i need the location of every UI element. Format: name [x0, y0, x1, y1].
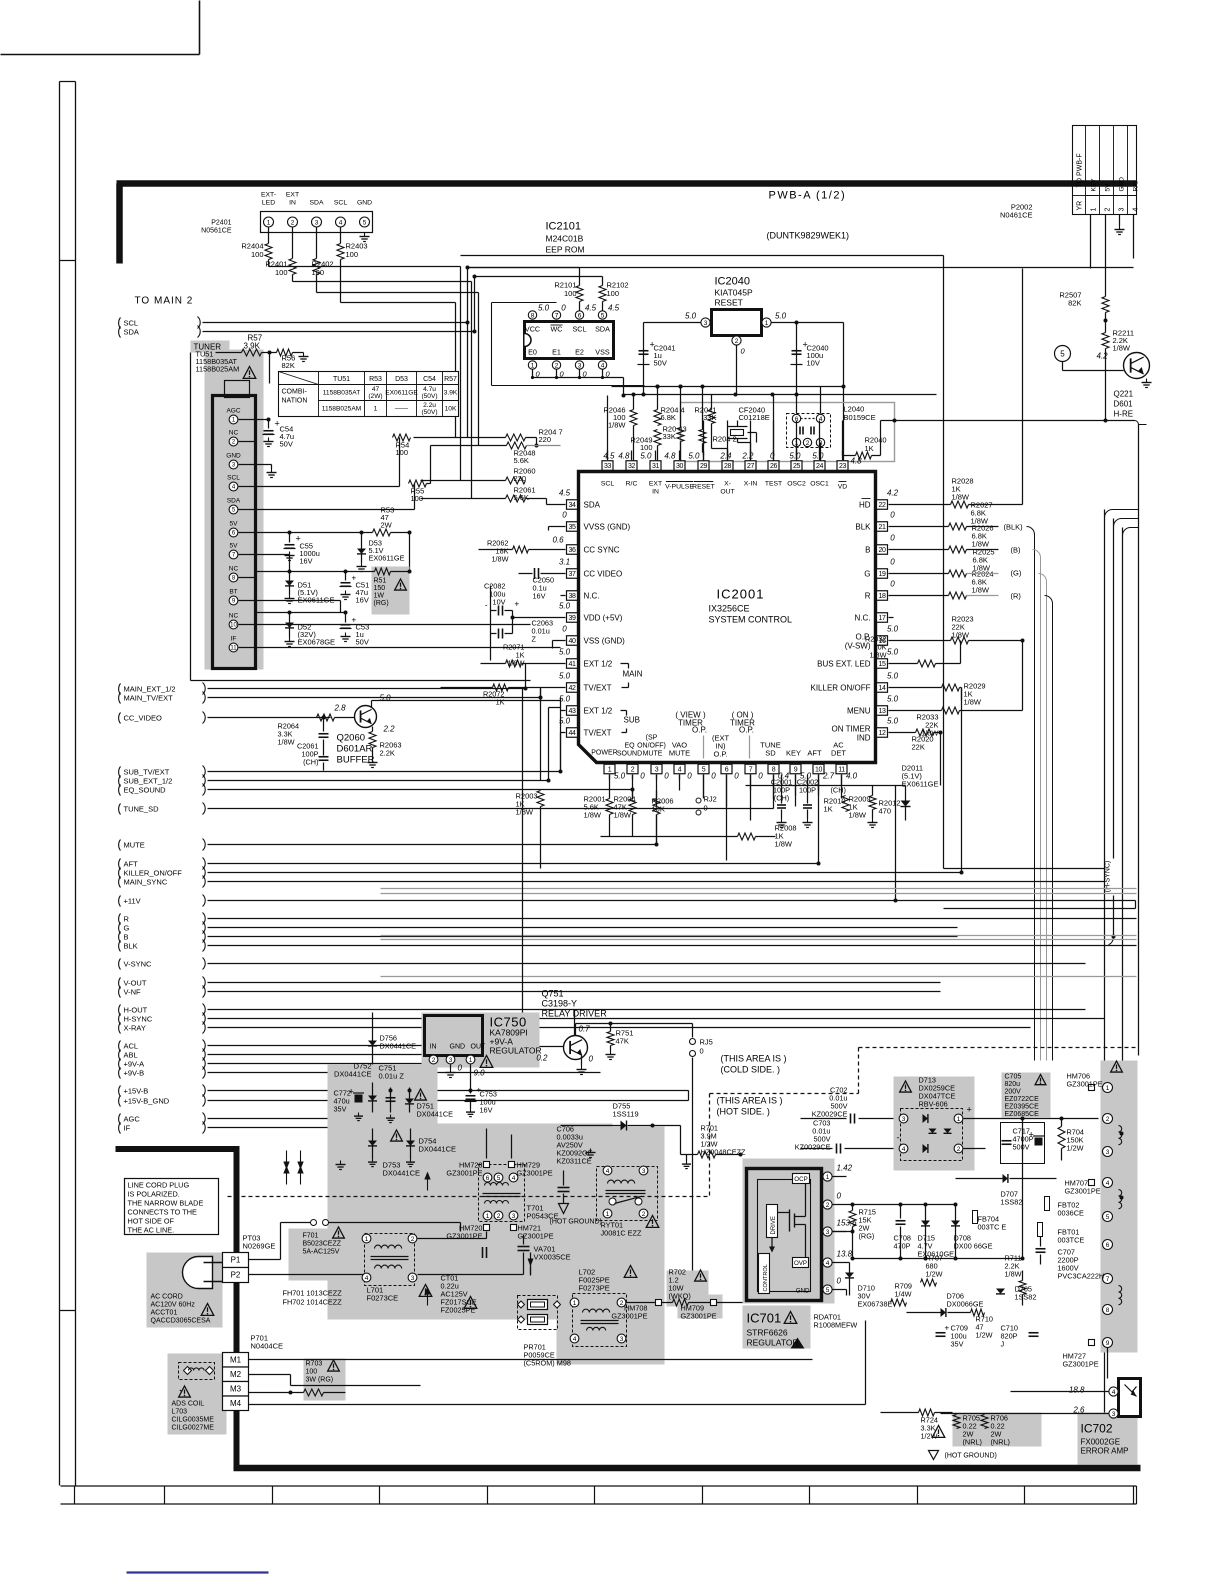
svg-text:1/8W: 1/8W: [608, 421, 626, 430]
svg-text:SUB_EXT_1/2: SUB_EXT_1/2: [124, 777, 173, 786]
svg-text:L703: L703: [172, 1409, 188, 1416]
svg-text:EQ: EQ: [624, 743, 635, 750]
svg-text:0: 0: [770, 452, 775, 461]
svg-text:OSC2: OSC2: [787, 481, 806, 488]
svg-text:22: 22: [879, 502, 886, 509]
svg-text:EEP ROM: EEP ROM: [546, 245, 585, 255]
svg-text:47: 47: [372, 386, 380, 393]
svg-text:IC2101: IC2101: [546, 221, 581, 233]
svg-text:N0269GE: N0269GE: [243, 1242, 276, 1251]
svg-text:17: 17: [879, 615, 886, 622]
svg-text:E1: E1: [552, 348, 561, 357]
svg-text:1/8W: 1/8W: [775, 840, 793, 849]
svg-text:MAIN_TV/EXT: MAIN_TV/EXT: [124, 694, 174, 703]
svg-text:MAIN_EXT_1/2: MAIN_EXT_1/2: [124, 685, 176, 694]
svg-text:AGC: AGC: [124, 1115, 141, 1124]
svg-text:100: 100: [275, 268, 288, 277]
svg-text:0: 0: [890, 580, 895, 589]
svg-text:R703: R703: [306, 1361, 323, 1368]
svg-text:7: 7: [749, 766, 753, 773]
svg-text:GZ3001PE: GZ3001PE: [1065, 1187, 1101, 1196]
svg-text:3: 3: [902, 1116, 906, 1123]
svg-text:R/C: R/C: [626, 481, 638, 488]
svg-text:THE AC LINE.: THE AC LINE.: [128, 1226, 175, 1235]
svg-text:2: 2: [1105, 208, 1112, 212]
svg-text:(B): (B): [1011, 546, 1022, 555]
svg-text:27: 27: [747, 463, 754, 470]
svg-text:X-IN: X-IN: [744, 481, 758, 488]
svg-text:100: 100: [396, 448, 409, 457]
svg-text:KILLER ON/OFF: KILLER ON/OFF: [810, 684, 870, 693]
svg-text:(G): (G): [1011, 569, 1022, 578]
svg-text:C54: C54: [423, 376, 436, 383]
svg-text:1SS119: 1SS119: [613, 1110, 639, 1119]
svg-text:RJ5: RJ5: [700, 1038, 713, 1047]
svg-text:REGULATOR: REGULATOR: [747, 1338, 799, 1348]
svg-text:ACL: ACL: [124, 1042, 139, 1051]
svg-text:1: 1: [573, 1300, 577, 1307]
svg-text:1SS82: 1SS82: [1015, 1293, 1037, 1302]
svg-text:V-OUT: V-OUT: [124, 979, 147, 988]
svg-text:0: 0: [758, 772, 763, 781]
svg-text:+: +: [967, 1105, 972, 1115]
svg-text:B: B: [124, 933, 129, 942]
svg-text:D601: D601: [1114, 400, 1134, 409]
svg-text:CONTROL: CONTROL: [763, 1264, 769, 1291]
svg-text:3: 3: [578, 362, 582, 369]
svg-text:R1008MEFW: R1008MEFW: [814, 1321, 858, 1330]
svg-text:1SS82: 1SS82: [1001, 1198, 1023, 1207]
svg-text:1: 1: [765, 320, 769, 327]
svg-text:NATION: NATION: [282, 398, 308, 405]
svg-text:M2: M2: [230, 1370, 242, 1379]
svg-text:SYSTEM CONTROL: SYSTEM CONTROL: [709, 615, 793, 625]
svg-text:O.P.: O.P.: [713, 750, 727, 759]
svg-text:0.2: 0.2: [536, 1054, 548, 1063]
svg-text:OUT: OUT: [471, 1044, 487, 1051]
svg-text:8: 8: [772, 766, 776, 773]
svg-text:38: 38: [569, 593, 576, 600]
svg-text:0: 0: [687, 772, 692, 781]
svg-text:1: 1: [374, 406, 378, 413]
svg-text:3.1: 3.1: [559, 558, 570, 567]
svg-text:2: 2: [1106, 1116, 1110, 1123]
svg-text:82K: 82K: [282, 361, 295, 370]
svg-text:15: 15: [879, 661, 886, 668]
svg-text:1/2W: 1/2W: [976, 1331, 993, 1340]
svg-text:0: 0: [562, 625, 567, 634]
svg-text:ABL: ABL: [124, 1051, 138, 1060]
svg-text:2.2u: 2.2u: [423, 402, 436, 409]
svg-text:SCL: SCL: [124, 319, 139, 328]
svg-text:SCL: SCL: [573, 325, 587, 334]
svg-text:EZ0395CE: EZ0395CE: [1005, 1104, 1040, 1111]
svg-text:3: 3: [449, 1057, 453, 1064]
svg-text:DRIVE: DRIVE: [771, 1216, 777, 1234]
svg-text:OVP: OVP: [794, 1260, 807, 1267]
svg-text:V-PULSE: V-PULSE: [665, 484, 694, 491]
svg-text:——: ——: [395, 406, 409, 413]
svg-text:AC120V 60Hz: AC120V 60Hz: [151, 1302, 196, 1309]
svg-text:150: 150: [374, 585, 386, 592]
svg-text:F0273PE: F0273PE: [579, 1284, 610, 1293]
svg-text:REGULATOR: REGULATOR: [490, 1046, 542, 1056]
svg-text:KILLER_ON/OFF: KILLER_ON/OFF: [124, 869, 183, 878]
svg-text:4.0: 4.0: [846, 772, 858, 781]
svg-text:N0404CE: N0404CE: [251, 1342, 284, 1351]
svg-text:2.7: 2.7: [822, 772, 835, 781]
svg-text:R51: R51: [374, 578, 387, 585]
svg-text:5.0: 5.0: [538, 304, 550, 313]
svg-text:14: 14: [879, 685, 886, 692]
svg-text:0: 0: [458, 1064, 463, 1073]
svg-text:35V: 35V: [334, 1105, 347, 1114]
svg-text:IND: IND: [857, 734, 871, 743]
svg-text:RESET: RESET: [692, 484, 715, 491]
svg-text:J0081C EZZ: J0081C EZZ: [601, 1229, 643, 1238]
svg-text:ACCT01: ACCT01: [151, 1310, 178, 1317]
svg-text:4: 4: [339, 219, 343, 226]
svg-text:0: 0: [734, 772, 739, 781]
svg-text:WC: WC: [551, 325, 563, 334]
svg-text:EX0678GE: EX0678GE: [298, 638, 336, 647]
svg-text:H-OUT: H-OUT: [124, 1006, 148, 1015]
svg-text:(C5ROM) M98: (C5ROM) M98: [524, 1359, 571, 1368]
svg-text:(DUNTK9829WEK1): (DUNTK9829WEK1): [767, 231, 850, 241]
svg-text:D601AR: D601AR: [337, 744, 373, 755]
svg-text:EXT: EXT: [286, 192, 299, 199]
svg-text:3: 3: [1112, 1411, 1116, 1418]
svg-text:0: 0: [589, 1055, 594, 1064]
svg-text:0.6: 0.6: [553, 536, 565, 545]
svg-text:8: 8: [1106, 1307, 1110, 1314]
svg-text:TV/EXT: TV/EXT: [584, 729, 612, 738]
svg-text:G: G: [864, 570, 870, 579]
svg-text:1/8W: 1/8W: [964, 698, 982, 707]
svg-text:100: 100: [346, 250, 359, 259]
svg-text:4: 4: [365, 1275, 369, 1282]
svg-text:PWB-A (1/2): PWB-A (1/2): [769, 190, 847, 202]
svg-text:10V: 10V: [493, 598, 506, 607]
svg-text:TUNE_SD: TUNE_SD: [124, 805, 160, 814]
svg-text:0.01u Z: 0.01u Z: [379, 1072, 405, 1081]
svg-text:6: 6: [486, 1175, 490, 1182]
svg-text:4.7u: 4.7u: [423, 386, 436, 393]
svg-text:TEST: TEST: [765, 481, 782, 488]
svg-text:AFT: AFT: [807, 749, 822, 758]
svg-text:MUTE: MUTE: [643, 751, 663, 758]
svg-text:+15V-B: +15V-B: [124, 1087, 149, 1096]
svg-text:5.0: 5.0: [688, 452, 700, 461]
svg-text:+15V-B_GND: +15V-B_GND: [124, 1097, 170, 1106]
svg-text:IN: IN: [289, 200, 296, 207]
svg-text:TO MAIN 2: TO MAIN 2: [135, 296, 194, 307]
svg-text:6.8K: 6.8K: [661, 413, 676, 422]
svg-text:13: 13: [879, 708, 886, 715]
svg-text:MAIN_SYNC: MAIN_SYNC: [124, 878, 168, 887]
svg-text:4.2: 4.2: [1097, 352, 1109, 361]
svg-text:P2: P2: [231, 1271, 241, 1280]
svg-text:6: 6: [725, 766, 729, 773]
svg-text:5.0: 5.0: [812, 452, 824, 461]
svg-text:NC: NC: [229, 566, 239, 573]
svg-text:R/C: R/C: [1133, 180, 1140, 192]
svg-text:GND: GND: [450, 1044, 466, 1051]
svg-text:VVSS (GND): VVSS (GND): [584, 523, 631, 532]
svg-text:NC: NC: [229, 430, 239, 437]
svg-text:1/2W: 1/2W: [926, 1270, 943, 1279]
svg-text:DET: DET: [831, 749, 846, 758]
svg-text:AGC: AGC: [226, 408, 240, 415]
svg-text:6: 6: [1106, 1242, 1110, 1249]
svg-text:G: G: [124, 924, 130, 933]
svg-text:R53: R53: [369, 376, 382, 383]
svg-text:1: 1: [469, 1057, 473, 1064]
svg-text:X-: X-: [724, 481, 731, 488]
svg-text:6: 6: [578, 312, 582, 319]
svg-text:35V: 35V: [951, 1340, 964, 1349]
svg-text:5: 5: [363, 219, 367, 226]
svg-text:29: 29: [700, 463, 707, 470]
svg-text:ON/OFF): ON/OFF): [637, 743, 666, 750]
svg-text:-: -: [897, 1133, 900, 1143]
svg-text:2.8: 2.8: [334, 704, 347, 713]
svg-text:5: 5: [497, 1175, 501, 1182]
svg-text:DX00 66GE: DX00 66GE: [954, 1242, 993, 1251]
svg-text:9: 9: [794, 766, 798, 773]
svg-text:N0561CE: N0561CE: [201, 228, 232, 235]
svg-text:V-SYNC: V-SYNC: [124, 960, 153, 969]
svg-text:1: 1: [1106, 1085, 1110, 1092]
svg-text:003TCE: 003TCE: [1058, 1236, 1085, 1245]
svg-text:LED: LED: [262, 200, 275, 207]
svg-text:(HOT GROUND): (HOT GROUND): [945, 1453, 997, 1460]
svg-text:4.8: 4.8: [618, 452, 630, 461]
svg-text:003TC E: 003TC E: [978, 1223, 1007, 1232]
svg-text:4: 4: [678, 766, 682, 773]
svg-text:BLK: BLK: [124, 942, 138, 951]
svg-text:39: 39: [569, 615, 576, 622]
svg-text:ADS COIL: ADS COIL: [172, 1401, 205, 1408]
svg-text:GZ3001PE: GZ3001PE: [681, 1312, 717, 1321]
svg-text:33: 33: [604, 463, 611, 470]
svg-text:2.4: 2.4: [719, 452, 732, 461]
svg-text:0: 0: [704, 804, 708, 813]
svg-text:SCL: SCL: [334, 200, 347, 207]
svg-text:RELAY DRIVER: RELAY DRIVER: [542, 1009, 608, 1019]
svg-text:+9V-B: +9V-B: [124, 1069, 145, 1078]
svg-text:2: 2: [555, 362, 559, 369]
svg-text:3W (RG): 3W (RG): [306, 1377, 334, 1384]
svg-text:3: 3: [512, 1213, 516, 1220]
svg-text:SCL: SCL: [227, 475, 240, 482]
svg-text:AC CORD: AC CORD: [151, 1294, 183, 1301]
svg-text:EXT-: EXT-: [261, 192, 276, 199]
svg-text:(SP: (SP: [646, 735, 658, 742]
svg-text:1/8W: 1/8W: [584, 811, 602, 820]
svg-text:1: 1: [826, 1174, 830, 1181]
svg-text:3.9K: 3.9K: [444, 390, 458, 397]
svg-text:KZ0311CE: KZ0311CE: [557, 1157, 592, 1166]
svg-text:CC_VIDEO: CC_VIDEO: [124, 714, 163, 723]
svg-text:1/8W: 1/8W: [952, 631, 970, 640]
svg-text:SUB: SUB: [624, 716, 640, 725]
svg-text:D53: D53: [395, 376, 408, 383]
svg-text:1158B025AM: 1158B025AM: [322, 406, 361, 413]
svg-text:2: 2: [432, 1057, 436, 1064]
svg-text:KIAT045P: KIAT045P: [715, 288, 753, 298]
svg-text:7: 7: [555, 312, 559, 319]
svg-text:FX0002GE: FX0002GE: [1081, 1438, 1121, 1447]
svg-text:5.0: 5.0: [887, 625, 899, 634]
svg-text:0: 0: [890, 558, 895, 567]
svg-text:7: 7: [1106, 1276, 1110, 1283]
svg-text:NC: NC: [229, 613, 239, 620]
svg-text:36: 36: [569, 547, 576, 554]
svg-text:0: 0: [640, 772, 645, 781]
svg-text:GZ3001PE: GZ3001PE: [446, 1169, 482, 1178]
svg-text:SD: SD: [765, 749, 776, 758]
svg-text:3: 3: [826, 1229, 830, 1236]
svg-text:M1: M1: [230, 1356, 242, 1365]
svg-text:0: 0: [890, 534, 895, 543]
svg-text:9: 9: [1106, 1340, 1110, 1347]
svg-text:EZ0722CE: EZ0722CE: [1005, 1096, 1040, 1103]
svg-text:STRF6626: STRF6626: [747, 1328, 788, 1338]
svg-text:1/8W: 1/8W: [614, 811, 632, 820]
svg-text:1/8W: 1/8W: [972, 586, 990, 595]
svg-text:2: 2: [826, 1202, 830, 1209]
svg-text:IN: IN: [652, 489, 659, 496]
svg-text:SCL: SCL: [601, 481, 614, 488]
svg-text:35: 35: [569, 524, 576, 531]
svg-text:+: +: [945, 1324, 950, 1333]
svg-text:2: 2: [806, 440, 810, 447]
svg-text:IC702: IC702: [1081, 1422, 1113, 1436]
svg-text:5V: 5V: [230, 543, 239, 550]
svg-text:28: 28: [724, 463, 731, 470]
svg-text:O.P.: O.P.: [692, 726, 707, 735]
svg-text:1/8W: 1/8W: [278, 738, 295, 747]
svg-text:0: 0: [890, 511, 895, 520]
svg-text:3: 3: [411, 1275, 415, 1282]
svg-text:37: 37: [569, 571, 576, 578]
svg-text:Q751: Q751: [542, 989, 564, 999]
svg-text:M4: M4: [230, 1399, 242, 1408]
svg-text:E2: E2: [575, 348, 584, 357]
svg-text:GND: GND: [226, 453, 241, 460]
svg-text:26: 26: [770, 463, 777, 470]
svg-text:E0: E0: [528, 348, 537, 357]
svg-text:DX0066GE: DX0066GE: [947, 1300, 984, 1309]
svg-text:100: 100: [251, 250, 264, 259]
svg-text:0: 0: [561, 304, 566, 313]
svg-text:5V: 5V: [1105, 183, 1112, 192]
svg-text:CC SYNC: CC SYNC: [584, 546, 620, 555]
svg-text:41: 41: [569, 661, 576, 668]
svg-text:500V: 500V: [1013, 1143, 1030, 1152]
svg-text:EXT: EXT: [649, 481, 662, 488]
svg-text:X-RAY: X-RAY: [124, 1024, 146, 1033]
svg-text:31: 31: [652, 463, 659, 470]
svg-text:47K: 47K: [616, 1037, 629, 1046]
svg-text:Z: Z: [532, 635, 537, 644]
svg-text:4: 4: [1106, 1180, 1110, 1187]
svg-text:KEY: KEY: [786, 749, 801, 758]
svg-text:ON TIMER: ON TIMER: [832, 725, 871, 734]
svg-text:1: 1: [1091, 208, 1098, 212]
svg-text:12: 12: [879, 730, 886, 737]
svg-text:22K: 22K: [912, 743, 925, 752]
svg-text:470: 470: [879, 807, 892, 816]
svg-text:GZ3001PE: GZ3001PE: [446, 1232, 482, 1241]
svg-text:COMBI-: COMBI-: [282, 389, 308, 396]
svg-text:DX0441CE: DX0441CE: [380, 1042, 417, 1051]
svg-text:100: 100: [564, 289, 577, 298]
svg-text:TO PWB-F: TO PWB-F: [1077, 153, 1084, 187]
svg-text:P2401: P2401: [211, 220, 231, 227]
svg-text:4: 4: [826, 1260, 830, 1267]
svg-text:20: 20: [879, 547, 886, 554]
svg-text:VX0035CE: VX0035CE: [534, 1253, 571, 1262]
svg-text:(HOT GROUND): (HOT GROUND): [550, 1219, 602, 1226]
svg-text:0: 0: [837, 1192, 842, 1201]
svg-text:5.0: 5.0: [559, 602, 571, 611]
svg-text:C3198-Y: C3198-Y: [542, 999, 578, 1009]
svg-text:3: 3: [704, 320, 708, 327]
svg-text:34: 34: [569, 502, 576, 509]
svg-text:5A-AC125V: 5A-AC125V: [303, 1249, 340, 1256]
svg-text:+: +: [515, 600, 520, 609]
svg-text:5.0: 5.0: [559, 648, 571, 657]
svg-text:2: 2: [957, 1146, 961, 1153]
svg-text:EX0611GE: EX0611GE: [385, 390, 418, 397]
svg-text:1/4W: 1/4W: [895, 1290, 912, 1299]
svg-text:+11V: +11V: [124, 897, 141, 906]
svg-text:2.2: 2.2: [741, 452, 754, 461]
svg-text:POWER: POWER: [591, 750, 617, 757]
svg-text:N0461CE: N0461CE: [1000, 211, 1033, 220]
svg-text:HD: HD: [859, 501, 871, 510]
svg-text:IC2040: IC2040: [715, 276, 750, 288]
svg-text:VSS (GND): VSS (GND): [584, 637, 626, 646]
svg-text:4.5: 4.5: [559, 489, 571, 498]
svg-text:(COLD SIDE. ): (COLD SIDE. ): [721, 1065, 781, 1075]
svg-text:0036CE: 0036CE: [1058, 1209, 1085, 1218]
svg-text:SUB_TV/EXT: SUB_TV/EXT: [124, 768, 170, 777]
svg-text:2: 2: [735, 338, 739, 345]
svg-text:VSS: VSS: [595, 348, 610, 357]
svg-text:GND: GND: [796, 1288, 810, 1295]
svg-text:+9V-A: +9V-A: [124, 1060, 145, 1069]
svg-text:1: 1: [606, 1211, 610, 1218]
svg-text:(CH): (CH): [303, 758, 318, 767]
svg-text:3: 3: [1106, 1149, 1110, 1156]
svg-text:VDD (+5V): VDD (+5V): [584, 614, 623, 623]
svg-text:TV/EXT: TV/EXT: [584, 684, 612, 693]
svg-text:1: 1: [365, 1236, 369, 1243]
svg-text:H-RE: H-RE: [1114, 410, 1134, 419]
svg-text:IC701: IC701: [747, 1311, 782, 1326]
svg-text:0.7: 0.7: [579, 1025, 591, 1034]
svg-text:4.8: 4.8: [851, 457, 863, 466]
svg-text:2: 2: [631, 766, 635, 773]
svg-text:0: 0: [837, 1277, 842, 1286]
svg-text:4: 4: [606, 1168, 610, 1175]
svg-text:LINE CORD PLUG: LINE CORD PLUG: [128, 1181, 190, 1190]
svg-text:100: 100: [411, 494, 424, 503]
svg-text:5.0: 5.0: [685, 312, 697, 321]
